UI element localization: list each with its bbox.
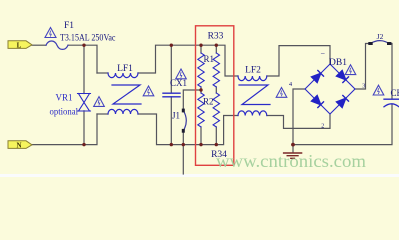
resistor R34 (right column bottom) — [213, 93, 219, 127]
junction dots — [82, 44, 295, 147]
wire: bridge pin4 to ground — [293, 89, 305, 152]
inductor LF1 bottom winding — [108, 109, 138, 114]
wire: LF1 top winding leads — [97, 72, 108, 74]
wire: J1 branch and mid tap — [183, 90, 201, 110]
wire: bottom rail from N port to LF1 — [32, 114, 97, 145]
wire: R right column stubs — [215, 45, 217, 53]
svg-text:J2: J2 — [377, 32, 384, 41]
svg-text:R33: R33 — [208, 32, 224, 42]
jumper J1 — [183, 111, 186, 131]
svg-text:LF2: LF2 — [245, 65, 261, 75]
svg-text:www.cntronics.com: www.cntronics.com — [216, 151, 366, 171]
svg-text:L: L — [17, 41, 22, 49]
wire: VR1 branch verticals — [83, 45, 85, 93]
schematic background — [0, 0, 399, 177]
wire: LF2 top winding to bridge top — [267, 46, 330, 76]
svg-text:LF1: LF1 — [117, 64, 133, 74]
svg-text:2: 2 — [321, 124, 324, 130]
resistor R33 (right column top) — [213, 53, 219, 87]
warning triangle right of LF1 core — [143, 86, 154, 96]
warning triangle right of LF2 core — [276, 88, 287, 98]
DB1 diode bottom-right — [336, 95, 348, 107]
inductor LF2 bottom winding — [238, 111, 267, 116]
warning triangle above CX1 — [176, 69, 187, 79]
varistor VR1 — [78, 94, 91, 112]
wire: R left column stubs — [200, 45, 202, 53]
LF1 core Z symbol — [112, 85, 141, 104]
DB1 diode top-left — [311, 70, 323, 82]
DB1 diode top-right — [336, 70, 348, 82]
svg-text:CX1: CX1 — [170, 78, 187, 88]
bridge rectifier DB1 body — [305, 64, 355, 114]
port L — [8, 41, 32, 50]
svg-text:3: 3 — [362, 83, 365, 90]
svg-text:DB1: DB1 — [329, 58, 347, 68]
DB1 diode bottom-left — [311, 95, 323, 107]
svg-text:T3.15AL 250Vac: T3.15AL 250Vac — [60, 34, 116, 44]
svg-text:−: − — [321, 50, 326, 59]
fuse F1 — [46, 41, 68, 49]
inductor LF1 top winding — [108, 73, 138, 78]
wire: LF1 bottom winding leads — [97, 113, 108, 115]
svg-text:optional: optional — [50, 107, 79, 117]
wire: top rail fuse to LF1 drop — [68, 45, 97, 73]
svg-text:N: N — [16, 141, 21, 149]
capacitor C output (electrolytic) — [384, 99, 399, 107]
warning triangle near output cap — [373, 85, 384, 95]
warning triangle near VR1 — [94, 97, 105, 107]
svg-text:J1: J1 — [172, 111, 180, 121]
wire: top rail from L port to fuse — [32, 44, 46, 46]
resistor R1 — [198, 53, 204, 87]
svg-text:VR1: VR1 — [55, 93, 72, 103]
inductor LF2 top winding — [238, 76, 267, 81]
jumper J2 — [371, 41, 390, 44]
wire: right bottom rail to cap — [292, 105, 392, 145]
red highlight box around R1/R2/R33/R34 — [196, 26, 234, 166]
warning triangle near F1 — [45, 28, 56, 38]
wire: LF2 bottom winding to bridge bottom — [267, 114, 330, 128]
port N — [8, 141, 32, 150]
resistor R2 — [198, 93, 204, 127]
wire: J2 right lead down to cap — [390, 44, 393, 100]
svg-text:CE: CE — [391, 88, 399, 98]
svg-text:F1: F1 — [64, 21, 74, 31]
warning triangle near DB1 — [345, 65, 356, 75]
svg-text:R2: R2 — [203, 97, 214, 107]
capacitor CX1 — [163, 93, 180, 97]
LF2 core Z symbol — [239, 85, 270, 105]
ground — [284, 153, 302, 158]
wire: bridge pin3 up to J2 — [355, 44, 370, 90]
svg-text:R1: R1 — [204, 54, 215, 64]
wire: CX1 branch verticals — [170, 45, 172, 93]
